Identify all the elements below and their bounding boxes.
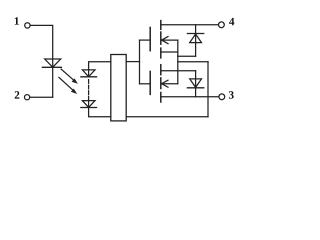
LED (input diode) bbox=[42, 59, 61, 67]
MOSFET Q1 channel source segment bbox=[160, 48, 162, 58]
pin 3 terminal bbox=[219, 94, 225, 100]
MOSFET Q1 gate bar bbox=[149, 27, 151, 50]
light arrow 1 bbox=[61, 69, 78, 84]
gate drive wire from block bbox=[126, 61, 139, 63]
rail return to control block bbox=[126, 116, 208, 118]
diode D1 anode wire bbox=[195, 43, 197, 57]
common source rail bbox=[178, 61, 208, 63]
diode D2 cathode wire bbox=[195, 88, 197, 97]
MOSFET Q2 source lead bbox=[161, 70, 196, 72]
MOSFET Q1 channel drain segment bbox=[160, 21, 162, 30]
light arrow 2 bbox=[59, 77, 77, 94]
MOSFET Q2 gate bar bbox=[149, 71, 151, 94]
wire LED to pin2 bbox=[30, 96, 53, 98]
MOSFET Q2 channel body segment bbox=[160, 78, 162, 89]
diode D2 bbox=[187, 79, 203, 88]
MOSFET Q1 body arrow bbox=[162, 37, 178, 44]
pin 2 label bbox=[15, 91, 20, 98]
wire Q2 drain to pin 3 bbox=[161, 96, 219, 98]
wire Q1 drain to pin 4 bbox=[161, 24, 219, 26]
wire pin1 to LED anode bbox=[30, 25, 53, 59]
wire photodiode top to control block bbox=[89, 62, 111, 70]
gate ladder vertical bbox=[139, 40, 141, 84]
diode D2 anode wire bbox=[195, 71, 197, 88]
diode D1 cathode wire bbox=[195, 25, 197, 43]
rail return vertical bbox=[207, 62, 209, 117]
wire source jog to D1 anode bbox=[178, 55, 196, 57]
photodiode PD2 bbox=[81, 101, 97, 108]
diode D1 bbox=[187, 34, 203, 43]
pin 1 terminal bbox=[25, 23, 30, 28]
gate lead Q2 bbox=[140, 83, 151, 85]
MOSFET Q2 channel source segment bbox=[160, 65, 162, 75]
pin 1 label bbox=[15, 17, 19, 24]
pin 4 label bbox=[229, 18, 234, 25]
MOSFET Q1 source lead bbox=[161, 51, 178, 53]
pin 4 terminal bbox=[219, 22, 225, 28]
pin 2 terminal bbox=[25, 95, 30, 100]
gate lead Q1 bbox=[140, 39, 151, 41]
wire photodiode bottom to control block bbox=[89, 108, 111, 117]
common source vertical bbox=[177, 40, 179, 84]
MOSFET Q2 channel drain segment bbox=[160, 93, 162, 103]
pin 3 label bbox=[229, 91, 234, 99]
MOSFET Q2 body arrow bbox=[162, 80, 178, 87]
wire LED vertical bbox=[52, 59, 54, 97]
control circuit block U1 bbox=[111, 55, 126, 121]
dashed link between photodiodes bbox=[88, 80, 90, 100]
photodiode PD1 bbox=[81, 70, 97, 77]
MOSFET Q1 channel body segment bbox=[160, 32, 162, 44]
